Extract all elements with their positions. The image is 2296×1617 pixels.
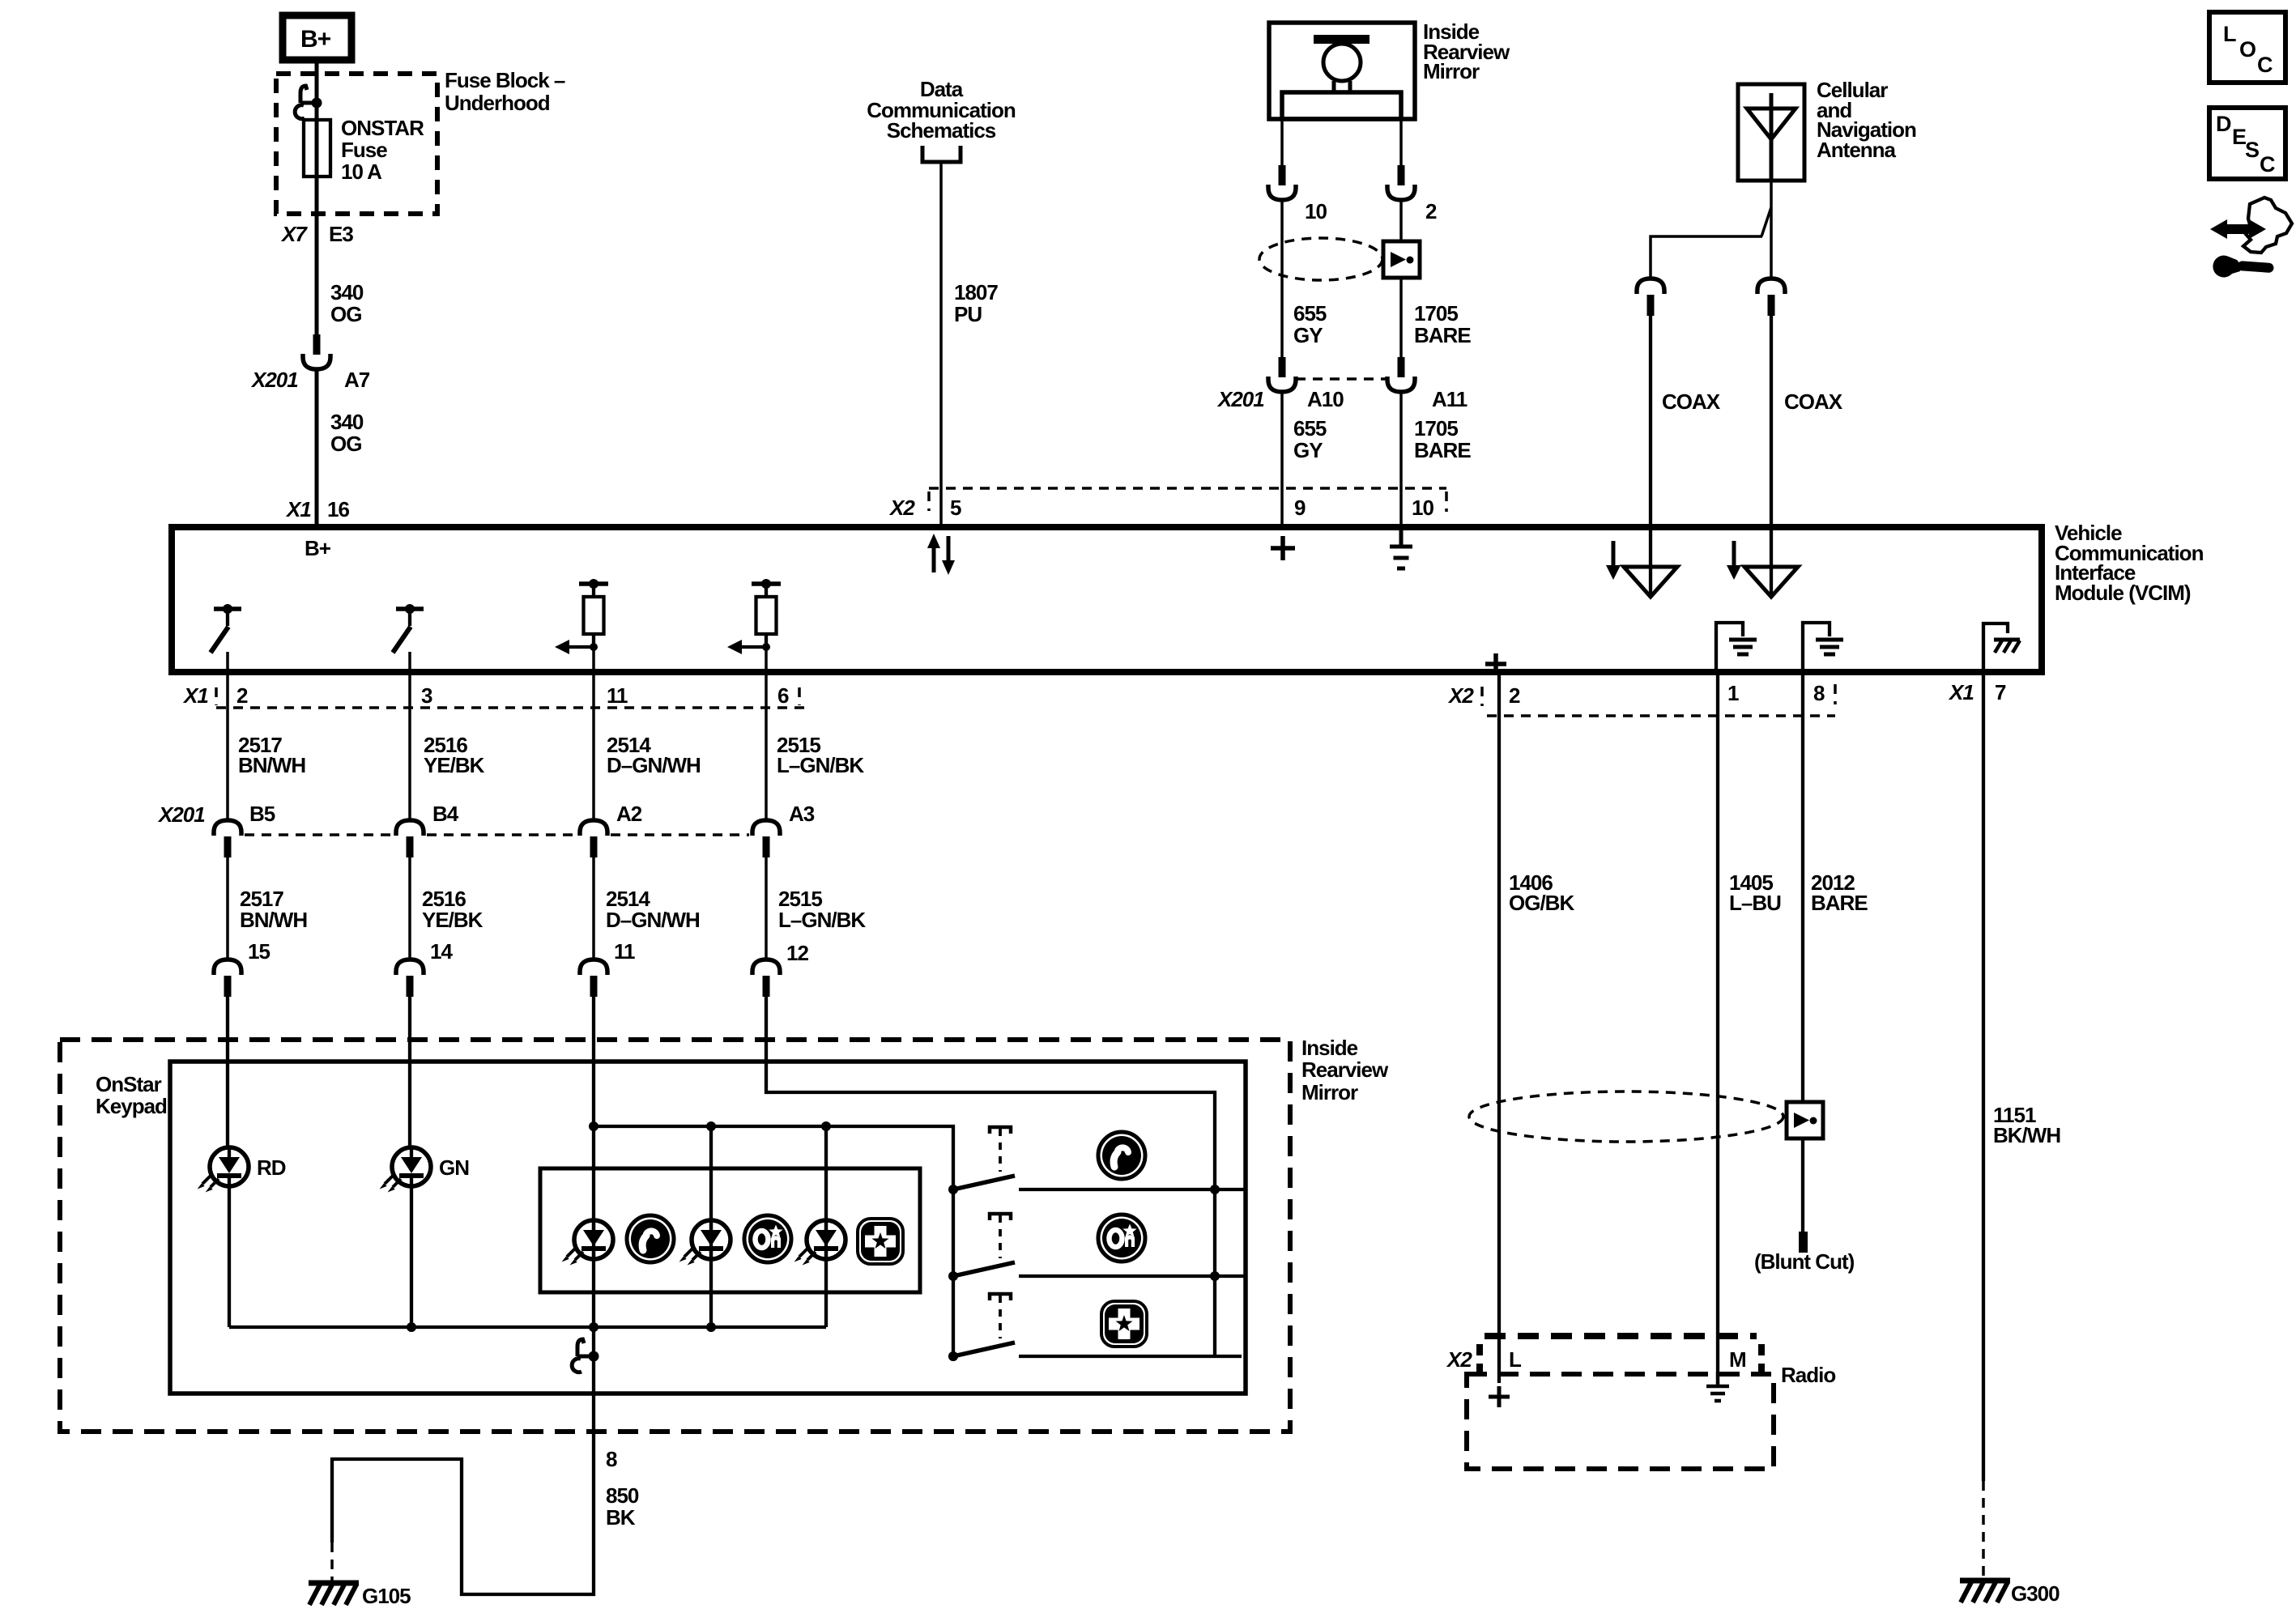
svg-text:COAX: COAX — [1784, 389, 1843, 414]
wire labels lower set — [240, 887, 866, 932]
drain wire box on 1705 — [1383, 241, 1420, 278]
svg-text:O: O — [2239, 37, 2256, 62]
keypad terminal pin 15 — [214, 960, 241, 997]
internal ground at pin 10 — [1390, 527, 1412, 568]
cross button icon — [1101, 1301, 1147, 1347]
svg-text:3: 3 — [421, 683, 432, 708]
wire label 850 BK — [606, 1483, 639, 1530]
svg-text:X1: X1 — [182, 683, 208, 708]
cluster phone icon — [627, 1215, 674, 1262]
internal sensor at pin 11 — [555, 579, 608, 654]
wire 2517 upper segment — [226, 672, 229, 820]
pin labels 10 and 2 — [1305, 199, 1437, 223]
svg-text:A3: A3 — [789, 802, 815, 826]
wire mirror pin 10 lead — [1280, 119, 1284, 165]
svg-text:7: 7 — [1995, 680, 2006, 704]
shield ellipse on radio wires — [1469, 1091, 1783, 1142]
in-line connector X201 pin B5 — [214, 820, 241, 857]
svg-text:BK/WH: BK/WH — [1993, 1123, 2060, 1147]
svg-text:A7: A7 — [344, 368, 370, 392]
label Inside Rearview Mirror (top) — [1423, 19, 1510, 83]
svg-text:L: L — [2223, 22, 2236, 46]
LED cluster box — [540, 1168, 920, 1292]
wire 2516 lower segment — [408, 857, 411, 960]
wire COAX right — [1770, 315, 1773, 527]
svg-text:2: 2 — [1509, 683, 1520, 708]
X201 row dashed lines — [245, 833, 749, 836]
cluster LED 3 — [794, 1220, 846, 1266]
wire pin 11 through keypad — [592, 996, 595, 1356]
radio dashed box — [1467, 1374, 1774, 1469]
junction dots anode bus — [589, 1121, 831, 1131]
in-line terminal mirror pin 10 — [1268, 165, 1296, 200]
svg-text:11: 11 — [614, 939, 635, 964]
switch row 3 wire — [1019, 1355, 1242, 1358]
svg-text:OG: OG — [330, 432, 361, 456]
labels X1 7 bottom right — [1948, 680, 2006, 704]
wire fuse to X201 — [315, 177, 319, 334]
svg-text:Module (VCIM): Module (VCIM) — [2055, 581, 2191, 605]
svg-text:BN/WH: BN/WH — [240, 908, 307, 932]
svg-text:Radio: Radio — [1781, 1363, 1835, 1387]
svg-text:10: 10 — [1305, 199, 1327, 223]
keypad switch S3 emergency — [948, 1294, 1015, 1361]
wire RD LED to common — [228, 1185, 231, 1327]
svg-text:10: 10 — [1412, 496, 1433, 520]
cluster cross icon — [858, 1219, 903, 1264]
svg-text:RD: RD — [257, 1155, 286, 1180]
coax terminal right — [1757, 279, 1785, 316]
wire 1807 PU serial data — [939, 162, 943, 527]
wire antenna split — [1651, 181, 1771, 279]
svg-text:E: E — [2232, 125, 2246, 149]
svg-text:15: 15 — [248, 939, 270, 964]
wire cluster LED2 — [709, 1126, 713, 1327]
connector X1 dashed line bottom left — [216, 687, 805, 708]
svg-text:X7: X7 — [280, 222, 308, 246]
svg-text:L: L — [1509, 1347, 1522, 1372]
internal ground at pin X2-8 — [1803, 623, 1843, 672]
svg-text:Fuse: Fuse — [341, 138, 387, 162]
LED cathode bus — [229, 1326, 826, 1329]
in-line connector X201 pin A10 — [1268, 357, 1296, 392]
wire label 340 OG lower — [330, 410, 364, 456]
LED GN — [380, 1147, 432, 1193]
VCIM module box U1 — [172, 527, 2042, 672]
wire mirror pin 2 lead — [1399, 119, 1403, 165]
svg-text:BK: BK — [606, 1505, 636, 1530]
wire labels 655 GY / 1705 BARE lower — [1293, 416, 1471, 462]
svg-text:X201: X201 — [157, 802, 205, 827]
off-page bracket for data link — [922, 146, 961, 162]
svg-text:B4: B4 — [432, 802, 459, 826]
OnStar button icon — [1098, 1215, 1145, 1262]
wire pin 2 stub — [226, 652, 229, 672]
twisted/shield ellipse on mirror wires — [1259, 238, 1382, 280]
internal chassis ground at pin X1-7 — [1983, 623, 2020, 672]
svg-text:D: D — [2216, 112, 2231, 136]
radio connector bracket ticks — [1476, 1344, 1483, 1377]
connector X2 dashed line bottom right — [1482, 684, 1835, 716]
connector X2 dashed line top — [929, 488, 1446, 512]
labels X2 5 9 10 — [888, 496, 1433, 520]
svg-text:BARE: BARE — [1414, 323, 1471, 347]
OnStar keypad outer dashed box — [60, 1040, 1290, 1432]
svg-text:C: C — [2260, 152, 2275, 177]
svg-text:Keypad: Keypad — [96, 1094, 167, 1118]
svg-text:14: 14 — [430, 939, 453, 964]
keypad switch S2 onstar — [948, 1214, 1015, 1281]
svg-text:G300: G300 — [2011, 1581, 2060, 1606]
svg-text:B+: B+ — [305, 536, 331, 560]
svg-text:11: 11 — [607, 683, 628, 708]
svg-text:Antenna: Antenna — [1817, 138, 1897, 162]
svg-text:5: 5 — [950, 496, 961, 520]
svg-text:D–GN/WH: D–GN/WH — [607, 753, 701, 777]
connector X7 pin E3 labels — [280, 222, 353, 246]
radio connector X2 dashed line — [1485, 1333, 1757, 1339]
wire 2517 lower segment — [226, 857, 229, 960]
svg-text:16: 16 — [327, 497, 349, 521]
svg-text:ONSTAR: ONSTAR — [341, 116, 424, 140]
radio + mark — [1489, 1386, 1510, 1407]
svg-text:BN/WH: BN/WH — [238, 753, 305, 777]
keypad switch S1 call — [948, 1127, 1015, 1194]
LED RD — [198, 1147, 249, 1193]
svg-text:1: 1 — [1727, 681, 1739, 705]
keypad inner box — [170, 1062, 1246, 1394]
wire labels 655 GY / 1705 BARE upper — [1293, 301, 1471, 347]
wire pin 12 to switch bus — [766, 996, 1215, 1356]
wire pin 15 into keypad — [226, 996, 229, 1148]
keypad terminal pin 11 — [580, 960, 607, 997]
svg-text:B+: B+ — [300, 26, 331, 53]
B+ power terminal box — [283, 15, 351, 60]
wire cluster LED3 — [824, 1126, 828, 1327]
svg-text:655: 655 — [1293, 416, 1327, 440]
label OnStar Keypad — [96, 1072, 167, 1118]
labels COAX — [1662, 389, 1843, 414]
in-line connector X201 pin B4 — [396, 820, 424, 857]
in-line connector X201 pin A2 — [580, 820, 607, 857]
svg-text:E3: E3 — [329, 222, 353, 246]
svg-text:BARE: BARE — [1414, 438, 1471, 462]
coax terminal left — [1637, 279, 1664, 316]
cluster LED 1 — [562, 1220, 614, 1266]
wire label 340 OG upper — [330, 280, 364, 326]
svg-text:OG/BK: OG/BK — [1509, 891, 1574, 915]
svg-text:Fuse Block –: Fuse Block – — [445, 68, 565, 92]
ground G105 — [309, 1583, 359, 1605]
wire 1406 OG/BK — [1497, 672, 1501, 1383]
switch row 1 wire — [1019, 1188, 1244, 1191]
svg-text:X2: X2 — [1447, 683, 1474, 708]
internal antenna mark left — [1606, 527, 1677, 597]
inside rearview mirror box — [1269, 23, 1415, 119]
svg-text:8: 8 — [606, 1447, 617, 1471]
svg-text:340: 340 — [330, 280, 364, 304]
svg-text:C: C — [2257, 53, 2273, 77]
terminal hook at fuse input — [295, 86, 322, 119]
svg-text:M: M — [1729, 1347, 1746, 1372]
svg-text:Underhood: Underhood — [445, 91, 550, 115]
svg-text:L–GN/BK: L–GN/BK — [778, 908, 866, 932]
svg-text:2: 2 — [236, 683, 248, 708]
drain wire box on 2012 — [1787, 1102, 1823, 1138]
wire 2515 lower segment — [765, 857, 768, 960]
svg-text:GY: GY — [1293, 438, 1323, 462]
svg-text:9: 9 — [1294, 496, 1306, 520]
svg-text:Inside: Inside — [1301, 1036, 1358, 1060]
switch row 2 wire — [1019, 1274, 1244, 1278]
in-line connector X201 pin A3 — [752, 820, 780, 857]
wire A7 to VCIM pin 16 — [315, 369, 319, 527]
labels X201 A10 A11 — [1216, 387, 1467, 411]
internal serial data arrows — [927, 534, 955, 575]
internal + mark at pin 9 — [1271, 536, 1295, 560]
svg-text:X201: X201 — [250, 368, 298, 392]
keypad terminal pin 14 — [396, 960, 424, 997]
X201 connector dashed line — [1296, 377, 1387, 381]
wire 655 GY to VCIM pin 9 — [1280, 392, 1284, 527]
svg-text:X2: X2 — [888, 496, 915, 520]
wire COAX left — [1649, 315, 1652, 527]
junction dots switch buses — [948, 1185, 1220, 1361]
wire pin 14 into keypad — [408, 996, 411, 1148]
wire B+ feed to fuse — [315, 60, 319, 121]
mirror symbol — [1282, 35, 1401, 119]
radio ground mark — [1706, 1372, 1729, 1401]
labels X2 L M — [1446, 1347, 1746, 1372]
svg-text:G105: G105 — [362, 1584, 411, 1608]
wire 2012 BARE — [1801, 672, 1804, 1232]
svg-text:A10: A10 — [1307, 387, 1344, 411]
phone button icon — [1098, 1132, 1145, 1179]
wire 2514 lower segment — [592, 857, 595, 960]
labels X201 B5 B4 A2 A3 — [157, 802, 815, 827]
svg-text:Mirror: Mirror — [1423, 59, 1480, 83]
wire 2514 upper segment — [592, 672, 595, 820]
internal ground at pin X2-1 — [1716, 623, 1757, 672]
DESC reference box — [2209, 108, 2285, 179]
wire 2515 upper segment — [765, 672, 768, 820]
svg-text:6: 6 — [777, 683, 789, 708]
internal switch at pin 3 — [393, 604, 424, 653]
LED anode bus — [594, 1126, 953, 1356]
wire label 1151 BK/WH — [1993, 1103, 2060, 1147]
wire 1705 BARE upper segment — [1399, 200, 1403, 357]
svg-text:YE/BK: YE/BK — [424, 753, 485, 777]
svg-text:A2: A2 — [616, 802, 642, 826]
connector X1 pin 16 labels — [285, 497, 349, 521]
internal antenna mark right — [1727, 527, 1798, 597]
svg-text:Schematics: Schematics — [887, 118, 996, 143]
svg-text:OnStar: OnStar — [96, 1072, 162, 1096]
internal sensor at pin 6 — [727, 579, 781, 654]
label Fuse Block - Underhood — [445, 68, 565, 115]
in-line connector X201 pin A11 — [1387, 357, 1415, 392]
label Vehicle Communication Interface Module (VCIM) — [2055, 521, 2204, 605]
cluster LED 2 — [679, 1220, 731, 1266]
svg-text:10 A: 10 A — [341, 160, 382, 184]
wire GN LED to common — [410, 1185, 413, 1327]
ground hook on keypad return — [572, 1339, 598, 1372]
wire pin 6 stub — [765, 647, 768, 672]
keypad terminal pin 12 — [752, 960, 780, 997]
in-line terminal mirror pin 2 — [1387, 165, 1415, 200]
svg-text:COAX: COAX — [1662, 389, 1721, 414]
wire labels 2517 BN/WH 2516 YE/BK 2514 D-GN/WH 2515 L-GN/BK upper — [238, 733, 864, 777]
svg-text:X1: X1 — [1948, 680, 1974, 704]
labels X1 2 3 11 6 — [182, 683, 789, 708]
dashed lead to G300 — [1982, 1481, 1985, 1578]
svg-text:X2: X2 — [1446, 1347, 1472, 1372]
label Data Communication Schematics — [867, 77, 1016, 143]
ground G300 — [1960, 1581, 2010, 1602]
fuse F ONSTAR 10A — [304, 116, 424, 184]
wire 655 GY upper segment — [1280, 200, 1284, 357]
wire label 1807 PU — [954, 280, 998, 326]
svg-text:1705: 1705 — [1414, 416, 1458, 440]
svg-text:L–BU: L–BU — [1729, 891, 1781, 915]
svg-text:12: 12 — [786, 941, 808, 965]
svg-text:YE/BK: YE/BK — [422, 908, 483, 932]
svg-text:PU: PU — [954, 302, 982, 326]
junction dots cathode bus — [407, 1322, 716, 1332]
svg-text:1807: 1807 — [954, 280, 998, 304]
wire pin 3 stub — [408, 652, 411, 672]
svg-text:340: 340 — [330, 410, 364, 434]
cellular and navigation antenna box — [1738, 84, 1804, 181]
svg-text:850: 850 — [606, 1483, 639, 1508]
svg-text:(Blunt Cut): (Blunt Cut) — [1754, 1249, 1855, 1274]
svg-text:Mirror: Mirror — [1301, 1080, 1358, 1104]
fuse block underhood dashed box — [276, 74, 437, 214]
svg-text:OG: OG — [330, 302, 361, 326]
wire 2516 upper segment — [408, 672, 411, 820]
labels X2 2 1 8 — [1447, 681, 1825, 708]
svg-text:Rearview: Rearview — [1301, 1057, 1389, 1082]
LOC reference box — [2209, 12, 2285, 83]
service icon: double arrow, outline, wrench — [2210, 198, 2292, 278]
in-line connector X201 pin A7 — [303, 334, 330, 369]
svg-text:D–GN/WH: D–GN/WH — [606, 908, 700, 932]
svg-text:8: 8 — [1813, 681, 1825, 705]
wire 850 BK keypad ground run — [332, 1356, 594, 1594]
wire 1705 BARE to VCIM pin 10 — [1399, 392, 1403, 527]
svg-text:GY: GY — [1293, 323, 1323, 347]
wire 1151 BK/WH — [1982, 672, 1985, 1481]
antenna symbol — [1747, 93, 1795, 181]
wire pin 11 stub — [592, 647, 595, 672]
pin number labels 15 14 11 12 — [248, 939, 808, 965]
svg-text:GN: GN — [439, 1155, 469, 1180]
cluster OnStar icon — [744, 1215, 791, 1262]
svg-text:X1: X1 — [285, 497, 311, 521]
svg-text:1705: 1705 — [1414, 301, 1458, 326]
internal + mark at pin X2-2 — [1485, 653, 1506, 674]
svg-text:X201: X201 — [1216, 387, 1264, 411]
svg-text:BARE: BARE — [1811, 891, 1868, 915]
svg-text:S: S — [2245, 138, 2259, 162]
internal switch at pin 2 — [211, 604, 241, 653]
svg-text:655: 655 — [1293, 301, 1327, 326]
svg-text:B5: B5 — [249, 802, 275, 826]
label Inside Rearview Mirror (keypad) — [1301, 1036, 1389, 1104]
svg-text:A11: A11 — [1432, 387, 1467, 411]
wire labels 1406 OG/BK 1405 L-BU 2012 BARE — [1509, 870, 1868, 915]
svg-text:2: 2 — [1425, 199, 1437, 223]
dashed lead to G105 — [330, 1543, 334, 1581]
label Cellular and Navigation Antenna — [1817, 78, 1916, 162]
blunt cut stub on 2012 — [1799, 1232, 1808, 1253]
svg-text:L–GN/BK: L–GN/BK — [777, 753, 864, 777]
wire 1405 L-BU — [1716, 672, 1719, 1372]
